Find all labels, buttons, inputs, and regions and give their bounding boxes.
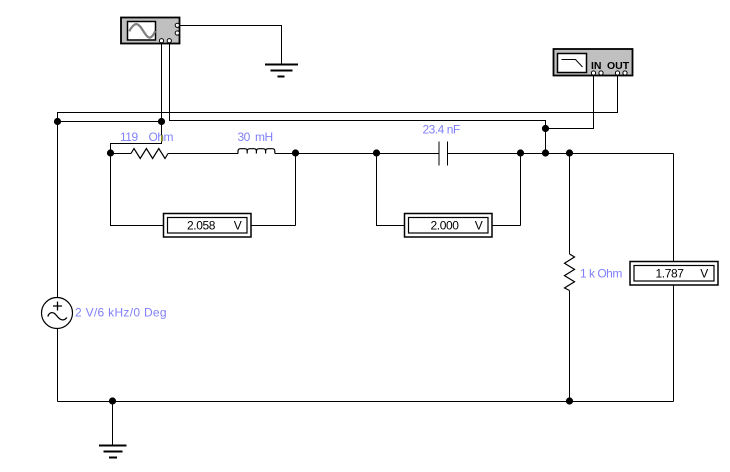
svg-text:2 V/6 kHz/0 Deg: 2 V/6 kHz/0 Deg <box>75 306 167 320</box>
svg-text:mH: mH <box>255 130 273 144</box>
svg-text:OUT: OUT <box>607 60 630 72</box>
svg-text:30: 30 <box>238 130 251 144</box>
svg-text:1 k Ohm: 1 k Ohm <box>580 267 622 281</box>
svg-text:V: V <box>700 266 708 280</box>
svg-text:2.058: 2.058 <box>187 218 216 232</box>
svg-text:2.000: 2.000 <box>430 218 459 232</box>
svg-text:IN: IN <box>591 60 602 72</box>
svg-text:V: V <box>475 218 483 232</box>
svg-text:119: 119 <box>120 130 138 144</box>
svg-text:23.4 nF: 23.4 nF <box>423 123 460 137</box>
svg-text:1.787: 1.787 <box>655 266 684 280</box>
svg-text:V: V <box>234 218 242 232</box>
